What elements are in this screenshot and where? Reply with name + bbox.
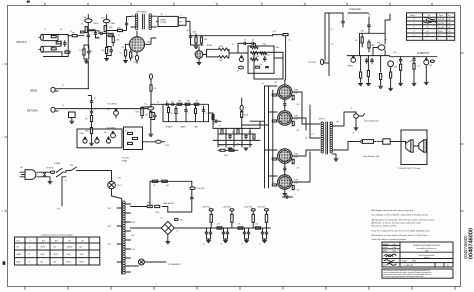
transformer T1 core: [143, 14, 145, 29]
svg-text:J8: J8: [353, 132, 355, 134]
wire cathode: [84, 45, 89, 61]
capacitor C16: [413, 57, 415, 62]
resistor R11: [118, 29, 123, 31]
ground ext jack: [354, 128, 358, 130]
svg-text:GR/YE: GR/YE: [41, 247, 46, 249]
svg-text:J1: J1: [44, 29, 46, 31]
svg-text:2: 2: [302, 2, 303, 4]
svg-text:Fn: Fn: [448, 15, 450, 17]
svg-text:V9: V9: [438, 35, 440, 37]
switch SW2 standby: [66, 167, 111, 172]
resistor R28: [390, 72, 392, 78]
resistor R19 zigzag: [251, 52, 259, 55]
box tone stack outer: [248, 46, 274, 73]
svg-text:4/7BK/G: 4/7BK/G: [67, 247, 74, 249]
svg-text:T2: T2: [29, 254, 31, 256]
svg-text:+410 VDC: +410 VDC: [197, 188, 206, 190]
potentiometer VR4 volume1: [114, 111, 119, 116]
resistor R24: [368, 42, 370, 48]
svg-text:C1: C1: [70, 31, 72, 33]
capacitor C18: [91, 109, 93, 114]
resistor R37 V2 plate: [141, 108, 144, 116]
svg-text:MODERN MUSIC AMPLIFICATION: MODERN MUSIC AMPLIFICATION: [413, 244, 440, 247]
wavy resistor R21: [251, 58, 259, 61]
capacitor C2 coupling: [87, 33, 89, 38]
capacitor C9: [264, 56, 266, 61]
svg-text:BK/PL: BK/PL: [54, 254, 58, 256]
svg-text:All capacitors in microfarads,: All capacitors in microfarads, 10% minim…: [372, 219, 435, 222]
wire return: [60, 108, 123, 110]
capacitor C36 filter: [266, 230, 268, 235]
resistor R60 screen V3: [292, 95, 294, 99]
capacitor C19 V2: [154, 113, 156, 118]
svg-text:Comparison chart for tremolo v: Comparison chart for tremolo voltages: [41, 234, 73, 237]
resistor R44 drop4: [195, 106, 197, 122]
potentiometer VR2 speed: [351, 58, 356, 63]
svg-text:2: 2: [414, 23, 415, 25]
capacitor C34 filter: [248, 230, 250, 235]
wire bus top: [190, 35, 273, 37]
svg-text:Conn: Conn: [16, 240, 20, 242]
capacitor C4 cathode: [110, 48, 112, 53]
tube V4 EL84: [278, 111, 292, 125]
wire PI column: [241, 98, 243, 128]
resistor R81 V1B aux: [109, 35, 113, 37]
svg-text:INPUTS: INPUTS: [17, 40, 27, 44]
resistor R36 dropper: [150, 85, 152, 91]
wire tube cathodes join: [284, 189, 286, 193]
svg-text:250p: 250p: [178, 101, 182, 103]
svg-text:+425 VDC: +425 VDC: [222, 206, 231, 208]
svg-text:.02: .02: [252, 40, 254, 42]
resistor R9 grid: [112, 37, 114, 43]
tube V5 EL84: [278, 149, 292, 163]
svg-text:Switch S2 shown in tremolo off: Switch S2 shown in tremolo off position: [372, 238, 407, 241]
capacitor C14: [371, 58, 373, 63]
resistor R74: [162, 180, 168, 182]
ground filter 3: [245, 240, 249, 242]
svg-text:.1: .1: [397, 62, 398, 64]
diode bridge D1-D4: [161, 221, 174, 234]
jack J5 foot oval: [156, 140, 162, 143]
svg-text:.02: .02: [157, 102, 159, 104]
wire V1A plate: [87, 15, 89, 49]
svg-text:T3: T3: [29, 261, 31, 263]
svg-text:10/61: 10/61: [393, 244, 397, 246]
capacitor C32 filter: [227, 230, 229, 235]
wire rectifier leads: [126, 31, 138, 55]
resistor R35: [128, 142, 133, 144]
resistor R47: [237, 129, 239, 134]
svg-text:16: 16: [243, 232, 245, 234]
resistor R2 68K: [56, 42, 61, 44]
capacitor C6 reservoir: [190, 34, 192, 39]
resistor R29: [400, 64, 402, 70]
svg-text:EL84: EL84: [294, 156, 298, 158]
capacitor C40 V1A aux: [95, 31, 97, 36]
resistor R50: [229, 149, 234, 151]
ground filter 2: [224, 240, 228, 242]
svg-text:Fuse F1 is 2 A for 117V units.: Fuse F1 is 2 A for 117V units. Fuse F1 i…: [372, 229, 430, 232]
wire OT secondary leads: [333, 112, 359, 158]
capacitor C41 input: [64, 41, 66, 46]
svg-text:ECC83: ECC83: [438, 19, 444, 21]
table tube chart: [407, 13, 455, 41]
wire tone entries: [238, 43, 283, 58]
svg-text:YE/W: YE/W: [67, 254, 71, 256]
svg-text:.02: .02: [118, 35, 120, 37]
wire tone net rail: [163, 104, 209, 121]
jack J1: [41, 34, 44, 40]
svg-text:6: 6: [128, 2, 129, 4]
transformer T2 output primary: [321, 122, 324, 125]
potentiometer VR8: [106, 139, 110, 143]
ground oscillator: [197, 63, 201, 65]
svg-text:TO P.I.: TO P.I.: [219, 146, 224, 148]
ground V1B cathode: [105, 59, 109, 61]
svg-text:.02: .02: [237, 70, 239, 72]
svg-text:1K5: 1K5: [274, 82, 277, 84]
svg-text:16: 16: [242, 244, 244, 246]
ground tremolo 4: [389, 88, 393, 90]
filter group 4: choke resistor: [265, 209, 269, 211]
jack J4 return: [51, 107, 55, 112]
speaker SP1: [411, 140, 413, 152]
lamp pilot: [108, 181, 116, 189]
svg-text:.05: .05: [205, 113, 207, 115]
svg-text:470: 470: [237, 143, 240, 145]
svg-text:FOOT SW: FOOT SW: [308, 62, 316, 64]
svg-text:FUSE 2A: FUSE 2A: [47, 167, 55, 170]
resistor R43 drop2: [175, 106, 177, 122]
svg-text:4: 4: [414, 31, 415, 33]
svg-text:2 CELESTION (T7) 10 inch: 2 CELESTION (T7) 10 inch: [398, 168, 421, 170]
svg-text:V5: V5: [427, 35, 429, 37]
junction dots: [88, 30, 89, 31]
transformer T1 secondary winding: [149, 14, 152, 17]
wire input network: [43, 35, 68, 57]
wire V2: [123, 104, 164, 133]
svg-text:DC1: DC1: [68, 240, 71, 242]
svg-text:TO FILAMENTS: TO FILAMENTS: [168, 263, 182, 266]
svg-text:Dual Professional Mk: Dual Professional Mk: [419, 254, 435, 257]
transformer T3 mains winding: [112, 196, 122, 274]
resistor R26: [367, 71, 369, 77]
svg-text:Tremolo: Tremolo: [424, 257, 430, 259]
potentiometer VR6: [83, 139, 87, 143]
svg-text:All voltages measured with res: All voltages measured with respect to gr…: [372, 209, 414, 212]
svg-text:220V: 220V: [108, 226, 112, 228]
box shield: [69, 112, 76, 118]
svg-text:7: 7: [429, 2, 430, 4]
svg-text:ECC83: ECC83: [438, 27, 444, 29]
svg-text:16: 16: [261, 232, 263, 234]
resistor R18 zigzag: [251, 46, 259, 49]
svg-text:500p: 500p: [276, 47, 280, 49]
svg-text:T: T: [30, 240, 31, 242]
switch SW1 power: [57, 168, 67, 176]
box speaker cabinet: [401, 130, 427, 165]
svg-text:10/61: 10/61: [393, 247, 397, 249]
resistor R41: [194, 103, 199, 105]
wire ht riser: [150, 181, 192, 212]
svg-text:VOLUME 1: VOLUME 1: [108, 104, 118, 106]
svg-text:V8: V8: [206, 51, 208, 53]
resistor R53 grid stopper V6: [272, 184, 276, 186]
wire to cabinet: [390, 141, 405, 143]
svg-text:4K7: 4K7: [166, 185, 169, 187]
svg-text:18W: 18W: [425, 250, 429, 252]
ground shield: [70, 121, 74, 123]
resistor R63 screen V6: [292, 185, 294, 189]
capacitor C27 intertube: [284, 166, 286, 171]
svg-text:C: C: [447, 263, 449, 267]
capacitor C28: [191, 196, 193, 201]
svg-text:All resistors in Ohms, 1/2 wat: All resistors in Ohms, 1/2 watt unless o…: [372, 222, 422, 225]
jack FS footswitch: [321, 59, 324, 64]
wire filter chain: [157, 21, 191, 33]
wire B+ tap: [145, 38, 156, 44]
svg-text:.02: .02: [244, 40, 246, 42]
svg-text:TONE: TONE: [79, 133, 83, 135]
wire to grid: [68, 35, 84, 37]
resistor R14: [195, 37, 197, 43]
capacitor C35 filter: [262, 230, 264, 235]
resistor R76 rail: [238, 227, 243, 229]
svg-text:470: 470: [297, 130, 300, 132]
ground mains: [48, 182, 52, 184]
resistor R61 screen V4: [292, 121, 294, 125]
svg-text:820: 820: [102, 50, 105, 52]
potentiometer VR5 volume2: [111, 133, 116, 138]
wire B+ dropper: [150, 74, 153, 79]
resistor R75 rail: [217, 227, 222, 229]
wire V1B plate: [106, 15, 108, 44]
svg-text:6.3V: 6.3V: [132, 249, 135, 251]
svg-text:470: 470: [122, 47, 125, 49]
tube V7A oscillator: [378, 45, 385, 50]
svg-text:ECC83: ECC83: [438, 23, 444, 25]
resistor R33: [128, 132, 133, 134]
filter group 1: choke resistor: [209, 209, 213, 211]
svg-text:FILTER: FILTER: [160, 22, 166, 24]
svg-text:YE/W: YE/W: [80, 254, 84, 256]
svg-text:D3: D3: [177, 231, 179, 233]
wire channel bus: [88, 96, 91, 143]
resistor R16 zigzag: [219, 48, 230, 51]
svg-text:V3: V3: [427, 27, 429, 29]
jack J2: [41, 46, 44, 52]
capacitor C11: [342, 19, 344, 24]
box line filter: [158, 16, 178, 26]
transformer T2 core: [326, 122, 328, 154]
svg-text:C-487-45: C-487-45: [404, 265, 414, 267]
svg-text:.1: .1: [346, 19, 347, 21]
svg-text:Bias set to -37VDC (277V): Bias set to -37VDC (277V): [372, 225, 397, 228]
svg-text:25: 25: [90, 50, 92, 52]
box surge limiter: [178, 18, 186, 26]
svg-text:BK/W: BK/W: [17, 261, 21, 263]
speaker SP2: [424, 140, 426, 152]
resistor R32: [90, 128, 92, 134]
svg-text:EL84: EL84: [294, 92, 298, 94]
ground intensity 3: [424, 82, 428, 84]
ground bridge: [166, 242, 170, 244]
ground OT: [334, 159, 338, 161]
svg-text:S1: S1: [331, 29, 333, 31]
ground filter 1: [207, 240, 211, 242]
resistor R17 zigzag: [219, 56, 230, 59]
resistor R45 PI: [241, 112, 243, 118]
svg-text:32: 32: [187, 30, 189, 32]
resistor R80 V1A aux: [80, 31, 84, 33]
svg-text:EL84: EL84: [294, 118, 298, 120]
wire footswitch lines: [325, 13, 369, 76]
wire PI grid mesh: [209, 113, 261, 147]
svg-text:V4: V4: [427, 31, 429, 33]
svg-text:5: 5: [171, 2, 172, 4]
svg-text:240V: 240V: [108, 208, 112, 210]
wire signal to V1B: [88, 31, 99, 34]
bottom grid ticks: [24, 287, 26, 290]
resistor R34: [133, 137, 138, 139]
svg-text:0048746000: 0048746000: [469, 227, 474, 259]
svg-text:1: 1: [414, 19, 415, 21]
resistor R20 zigzag: [260, 52, 267, 55]
title block: [382, 242, 453, 267]
wire PI outputs: [242, 121, 269, 128]
svg-text:325V: 325V: [132, 222, 136, 224]
svg-text:NONE: NONE: [412, 261, 416, 263]
capacitor C8: [250, 42, 255, 44]
svg-text:J7: J7: [351, 108, 353, 110]
svg-text:MAINS: MAINS: [160, 18, 166, 21]
svg-text:0: 0: [156, 284, 157, 286]
svg-text:J3: J3: [62, 85, 64, 87]
svg-text:117V: 117V: [108, 244, 111, 246]
svg-text:50: 50: [133, 56, 135, 58]
ground tremolo 2: [366, 84, 370, 86]
tube V3 EL84: [278, 85, 292, 99]
right grid ticks: [461, 53, 464, 211]
capacitor C30 filter: [210, 230, 212, 235]
svg-text:5: 5: [414, 35, 415, 37]
svg-text:RETURN: RETURN: [27, 109, 38, 112]
ground channel: [90, 143, 94, 145]
svg-text:.1: .1: [249, 62, 250, 64]
svg-text:7189: 7189: [294, 154, 298, 156]
svg-text:POWER: POWER: [54, 163, 61, 165]
tube V1A: [85, 19, 92, 23]
capacitor C13: [366, 58, 368, 63]
resistor R39: [177, 103, 182, 105]
resistor R23: [361, 37, 363, 43]
ground tremolo 3: [379, 86, 383, 88]
svg-text:BASS: BASS: [181, 126, 187, 129]
svg-text:.02: .02: [385, 39, 387, 41]
svg-text:Line voltage is 117V, 50/60 Hz: Line voltage is 117V, 50/60 Hz. 1 percen…: [372, 214, 429, 217]
wire screens feed: [310, 105, 320, 138]
resistor R10 cathode: [106, 48, 108, 54]
filter group 2: choke resistor: [230, 209, 234, 211]
svg-text:EL84: EL84: [438, 31, 442, 33]
svg-text:+415 VDC: +415 VDC: [244, 206, 253, 208]
wire intensity rail: [390, 56, 438, 59]
transformer T3 taps: [117, 204, 131, 272]
svg-text:BK/PL: BK/PL: [41, 254, 45, 256]
resistor R12: [124, 50, 126, 56]
resistor R8 100K plate: [104, 26, 106, 32]
resistor R5 grid stopper: [72, 35, 77, 37]
capacitor C31 filter: [223, 230, 225, 235]
svg-text:BK/PL: BK/PL: [80, 261, 84, 263]
svg-text:.02: .02: [410, 61, 412, 63]
svg-text:R2: R2: [60, 29, 62, 31]
resistor R15: [200, 37, 202, 43]
svg-text:B+: B+: [145, 104, 147, 106]
svg-text:3: 3: [259, 2, 260, 4]
wire cabinet internal: [406, 142, 419, 147]
tube V7B: [388, 61, 394, 67]
plug main speaker: [360, 140, 363, 144]
box disclaimer: [382, 269, 453, 278]
ground PI 1: [228, 148, 232, 150]
svg-text:20: 20: [221, 244, 223, 246]
svg-text:4: 4: [214, 2, 215, 4]
table connector chart: [15, 237, 100, 265]
ground rectifier: [124, 61, 128, 63]
svg-text:8: 8: [387, 2, 388, 4]
svg-text:.005: .005: [81, 24, 84, 26]
capacitor C24: [229, 134, 231, 139]
svg-text:.1: .1: [294, 194, 295, 196]
svg-text:8: 8: [42, 2, 43, 4]
svg-text:BK/PL: BK/PL: [67, 261, 71, 263]
svg-text:TO FS: TO FS: [165, 145, 170, 147]
svg-text:Stage: Stage: [411, 14, 415, 17]
resistor R3 1M: [51, 48, 56, 50]
capacitor C17: [91, 99, 93, 104]
wire send: [60, 88, 88, 90]
wire send feed: [87, 62, 89, 89]
box tone stack inner loop: [254, 52, 283, 79]
resistor R82 tone feed: [212, 115, 214, 120]
tube V1B: [103, 19, 110, 22]
ground tremolo 1: [359, 84, 363, 86]
capacitor C42 PI in: [213, 120, 218, 122]
svg-text:3: 3: [414, 27, 415, 29]
svg-text:.04: .04: [94, 109, 96, 111]
rectifier tube V9 GZ34: [129, 37, 144, 52]
wire grid bus lines: [265, 86, 278, 188]
svg-text:BK/BU: BK/BU: [17, 254, 22, 256]
svg-text:DC2: DC2: [81, 240, 84, 242]
capacitor C12: [368, 23, 370, 28]
svg-text:All resistance in Ohms unless: All resistance in Ohms unless otherwise …: [372, 234, 428, 237]
svg-text:16: 16: [260, 244, 262, 246]
ground tubes: [283, 194, 287, 196]
svg-text:J4: J4: [62, 105, 64, 107]
capacitor C15: [400, 58, 402, 63]
svg-text:BIAS ADJUST: BIAS ADJUST: [164, 202, 175, 205]
wire tremolo feed line: [385, 14, 390, 33]
resistor R52 grid stopper V5: [272, 158, 276, 160]
ground V1A cathode: [84, 61, 88, 63]
svg-text:.02: .02: [166, 101, 168, 103]
svg-text:20: 20: [222, 232, 224, 234]
left grid ticks: [4, 64, 7, 211]
resistor R40: [185, 103, 190, 105]
